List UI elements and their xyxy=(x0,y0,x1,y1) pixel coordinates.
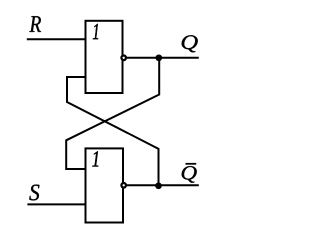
gate U1 (top NOT gate, IEC rectangle) xyxy=(86,21,123,93)
gate U2 (bottom NOT gate, IEC rectangle) xyxy=(86,148,124,222)
node Q (junction dot) xyxy=(155,54,162,61)
label Qbar (Q with overline) xyxy=(182,166,197,183)
wire U2 output to Qbar terminal xyxy=(127,184,199,186)
node Qbar (junction dot) xyxy=(155,182,162,189)
overline bar of label Qbar xyxy=(186,163,197,165)
wire U1 output to Q terminal xyxy=(127,57,199,59)
wire feedback from node Qbar to U1 lower input (horizontal, vertical, diagonal, vertical) xyxy=(67,77,159,186)
inversion bubble at U1 output xyxy=(121,56,126,61)
label R xyxy=(29,16,41,32)
label Q xyxy=(182,35,198,52)
wire S input to U2 xyxy=(27,203,85,205)
wire R input to U1 xyxy=(27,38,86,40)
wire feedback from node Q to U2 upper input (vertical, diagonal, vertical, horizontal) xyxy=(66,58,159,169)
inversion bubble at U2 output xyxy=(121,183,126,188)
label S xyxy=(29,185,39,201)
label "1" of gate U1 xyxy=(93,24,98,39)
label "1" of gate U2 xyxy=(92,151,98,166)
